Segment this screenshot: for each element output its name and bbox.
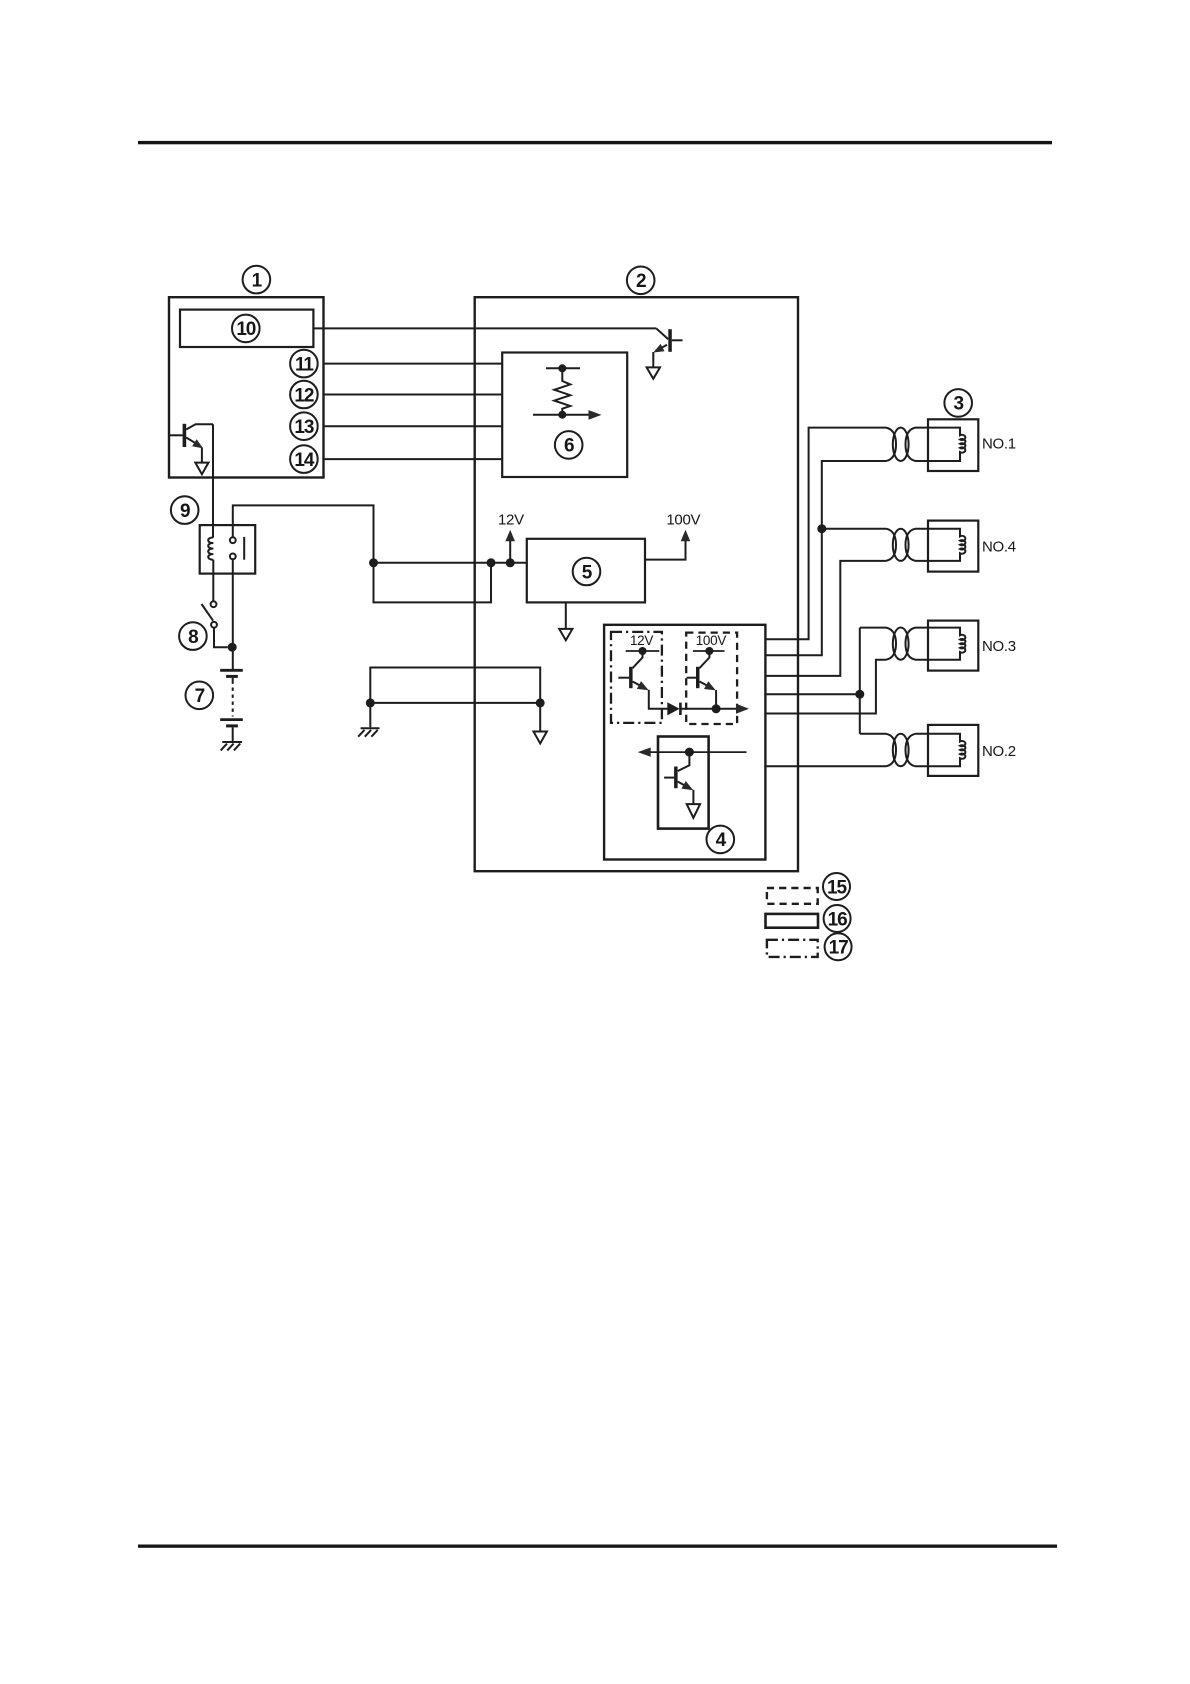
svg-text:9: 9 (180, 501, 190, 522)
wire to injector NO.2 bottom (765, 765, 886, 767)
label 17 (825, 933, 852, 960)
block 6 (502, 353, 627, 478)
switch 8 (202, 601, 228, 647)
ground (signal) under block 5 (559, 629, 572, 640)
svg-text:6: 6 (564, 436, 574, 457)
svg-text:4: 4 (716, 830, 727, 851)
svg-text:NO.1: NO.1 (982, 436, 1016, 453)
transistor Q1 in ECM (170, 424, 213, 463)
ground bus lower wire (370, 702, 540, 704)
wire to injectors NO.3 top / NO.2 top (765, 628, 886, 734)
relay contact points (230, 537, 244, 560)
wire relay coil to switch (212, 560, 214, 602)
svg-text:5: 5 (582, 562, 593, 583)
wire to injector NO.1 bottom / NO.4 top (765, 461, 886, 655)
label 4 (707, 826, 735, 854)
relay coil (208, 537, 213, 559)
output arrow right (716, 704, 749, 714)
pin label 14 (290, 445, 318, 473)
node Q3 collector (626, 647, 660, 655)
wire pin11 to block 6 (324, 363, 503, 365)
svg-text:16: 16 (828, 909, 847, 930)
node bottom of resistor (558, 411, 566, 419)
node C (506, 558, 515, 567)
wire pin13 to block 6 (324, 425, 503, 427)
node battery junction (228, 643, 237, 652)
bottom rule (138, 1545, 1057, 1548)
svg-text:15: 15 (827, 877, 847, 898)
wire Q3 emitter to diode (649, 690, 668, 709)
12V supply arrow (498, 512, 524, 563)
injector NO.2 connector box (928, 725, 978, 776)
node NO.4 branch (817, 524, 826, 533)
ground (signal) right of bus (534, 732, 547, 744)
injector NO.3 harness grommet (886, 628, 909, 660)
relay 9 box (200, 525, 256, 574)
wire branch NO.4 top (822, 528, 886, 530)
legend solid sample (766, 914, 819, 928)
label 10 (232, 315, 260, 343)
label 15 (823, 873, 850, 900)
ground (signal) under Q1 (195, 463, 208, 475)
inner block 10 (180, 310, 313, 347)
ground (signal) under Q2 (647, 367, 660, 378)
svg-text:13: 13 (294, 417, 313, 438)
legend dash-dot sample (767, 940, 818, 957)
wire to injector NO.1 top (765, 428, 886, 640)
dash-dot box (12V stage) (611, 632, 662, 723)
label 16 (824, 905, 851, 932)
label 6 (555, 431, 583, 459)
injector NO.1 connector box (928, 419, 978, 471)
svg-text:11: 11 (295, 354, 314, 375)
injector NO.2 harness grommet (886, 734, 909, 767)
svg-text:NO.2: NO.2 (982, 743, 1016, 760)
ECM box 1 (169, 297, 324, 477)
wire relay contact up and over (233, 505, 491, 602)
injector NO.4 plug with coil (906, 529, 966, 561)
wire relay contact to battery (232, 559, 234, 669)
svg-text:17: 17 (829, 938, 848, 959)
node diode output (712, 704, 721, 713)
svg-text:NO.4: NO.4 (982, 539, 1016, 556)
node ground bus left (366, 698, 375, 707)
ground (signal) under Q5 (687, 804, 700, 818)
igniter box 4 (604, 625, 765, 860)
ground bus wires (370, 668, 540, 732)
node Q4 collector (693, 647, 725, 655)
svg-text:100V: 100V (666, 512, 700, 529)
wire Q1 collector to relay coil (212, 424, 214, 537)
injector NO.4 harness grommet (886, 529, 909, 561)
injector NO.3 plug with coil (906, 628, 966, 660)
pin label 12 (290, 381, 318, 409)
label 2 (627, 267, 655, 295)
wire to injector NO.3 bottom (765, 660, 886, 714)
wire pin14 to block 6 (324, 458, 503, 460)
feedback line with left arrow (638, 748, 747, 757)
resistor in block 6 (554, 368, 570, 415)
regulator block 5 (527, 539, 645, 603)
wire to regulator 5 (374, 562, 527, 564)
wire pin12 to block 6 (324, 394, 503, 396)
node B (487, 558, 496, 567)
wire to injector NO.4 bottom (765, 561, 886, 676)
svg-text:3: 3 (953, 394, 963, 415)
node Q5 collector (685, 748, 694, 757)
transistor Q5 (664, 752, 695, 804)
label 9 (171, 496, 199, 524)
svg-text:100V: 100V (696, 633, 727, 648)
chassis ground under battery (221, 742, 242, 750)
svg-text:12V: 12V (498, 512, 524, 529)
label 7 (186, 682, 214, 710)
main unit box 2 (475, 297, 798, 871)
label 1 (243, 266, 271, 294)
node top of resistor (546, 364, 580, 372)
injector NO.1 plug with coil (906, 428, 966, 461)
label 5 (573, 558, 601, 586)
svg-text:14: 14 (294, 450, 314, 471)
svg-text:7: 7 (195, 686, 205, 707)
pin label 11 (290, 350, 318, 378)
transistor Q4 (687, 651, 718, 709)
label 8 (179, 622, 207, 650)
inner power transistor box (658, 737, 709, 829)
output arrow of block 6 (533, 410, 602, 420)
diode D1 (667, 702, 716, 715)
svg-text:8: 8 (188, 627, 198, 648)
node ground bus right (536, 698, 545, 707)
node A (369, 558, 378, 567)
node NO.3/NO.2 branch (855, 690, 864, 699)
svg-text:1: 1 (252, 270, 263, 291)
injector NO.4 connector box (928, 521, 978, 572)
legend dashed sample (767, 888, 818, 904)
wire pin10 to transistor Q2 (313, 327, 656, 329)
top rule (138, 141, 1052, 144)
transistor Q2 (top of box 2) (651, 328, 682, 367)
label 3 (944, 389, 972, 417)
injector NO.3 connector box (928, 621, 978, 671)
dashed box (100V stage) (686, 633, 737, 724)
svg-text:2: 2 (636, 271, 646, 292)
pin label 13 (290, 412, 318, 440)
transistor Q3 (618, 651, 650, 694)
ground stub of block 5 (565, 602, 567, 629)
chassis ground left (358, 728, 379, 736)
injector NO.1 harness grommet (886, 428, 909, 461)
svg-text:10: 10 (236, 319, 255, 340)
svg-text:12: 12 (294, 385, 313, 406)
svg-text:NO.3: NO.3 (982, 638, 1016, 655)
injector NO.2 plug with coil (906, 734, 966, 767)
100V output arrow (645, 512, 701, 560)
battery 7 (220, 670, 243, 741)
svg-text:12V: 12V (630, 633, 653, 648)
